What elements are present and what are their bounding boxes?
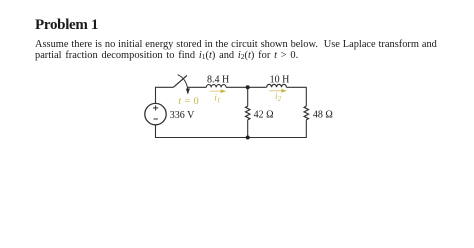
wire: bottom node B to bottom-left corner <box>156 125 248 138</box>
voltage source V1 plus sign <box>153 105 158 110</box>
current arrow i2 <box>269 89 287 93</box>
node B junction dot <box>246 136 250 140</box>
wire: node A to inductor L2 <box>248 86 267 88</box>
resistor R1 42 ohm <box>246 106 250 120</box>
inductor L1 8.4 H <box>206 85 226 88</box>
label R1 value 42 ohm <box>254 110 274 121</box>
svg-text:10 H: 10 H <box>270 74 290 85</box>
inductor L2 10 H <box>267 84 287 87</box>
switch SW1 blade (t=0) <box>173 76 187 88</box>
wire: switch to inductor L1 <box>187 86 206 88</box>
label current i2 <box>275 92 282 103</box>
svg-text:42 Ω: 42 Ω <box>254 110 274 121</box>
wire: node A to resistor R1 <box>247 87 249 106</box>
label L1 value 8.4 H <box>207 74 229 85</box>
svg-text:t = 0: t = 0 <box>178 96 199 107</box>
svg-text:48 Ω: 48 Ω <box>313 109 333 120</box>
resistor R2 48 ohm <box>304 106 308 120</box>
label R2 value 48 ohm <box>313 109 333 120</box>
voltage source V1 minus sign <box>154 118 158 120</box>
wire: left rail top (source to top-left corner) <box>156 87 174 103</box>
current arrow i1 <box>210 89 226 93</box>
svg-text:i2: i2 <box>275 92 282 103</box>
wire: inductor L2 to top-right corner <box>286 87 306 106</box>
label V1 value 336 V <box>170 110 195 121</box>
voltage source V1 336 V <box>145 103 166 124</box>
svg-text:336 V: 336 V <box>170 110 195 121</box>
wire: resistor R1 to bottom node B <box>247 120 249 138</box>
switch SW1 closing arrow <box>178 75 190 95</box>
label switch t = 0 <box>178 96 199 107</box>
label current i1 <box>214 94 220 105</box>
wire: inductor L1 to node A <box>226 86 248 88</box>
svg-text:i1: i1 <box>214 94 220 105</box>
wire: resistor R2 to bottom-right corner <box>248 120 307 138</box>
label L2 value 10 H <box>270 74 290 85</box>
svg-text:8.4 H: 8.4 H <box>207 74 229 85</box>
node A junction dot <box>246 85 250 89</box>
